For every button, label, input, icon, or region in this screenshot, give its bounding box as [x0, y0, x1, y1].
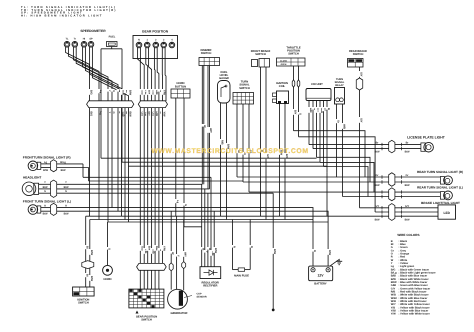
svg-text:Y/W: Y/W: [163, 90, 166, 95]
wire run throttle1: [294, 131, 366, 177]
lower gear wire labels: [139, 245, 166, 254]
svg-text:OPEN: OPEN: [281, 63, 287, 66]
svg-text:RELAY: RELAY: [335, 84, 344, 87]
svg-text:B/W: B/W: [129, 112, 132, 118]
svg-text:O: O: [112, 112, 115, 114]
svg-text:B/W: B/W: [375, 184, 381, 187]
turn signal relay: [335, 78, 345, 104]
svg-text:G: G: [108, 248, 111, 250]
svg-text:O: O: [65, 205, 67, 208]
svg-text:SWITCH: SWITCH: [201, 52, 212, 55]
svg-text:FUEL: FUEL: [109, 35, 116, 38]
svg-text:G/Y: G/Y: [360, 118, 363, 123]
svg-text:B: B: [327, 108, 330, 110]
svg-text:BUTTON: BUTTON: [175, 85, 186, 88]
CDI unit wires: [308, 101, 331, 173]
turn signal switch wires: [236, 104, 253, 192]
watermark: [151, 148, 308, 155]
wire run cdi4: [320, 162, 374, 192]
svg-text:HI: HIGH BEAM INDICATOR LIGHT: HI: HIGH BEAM INDICATOR LIGHT: [21, 15, 103, 18]
svg-text:Y/W: Y/W: [163, 112, 166, 117]
license plate light: [309, 136, 446, 154]
wire elbow sigR-a: [83, 176, 211, 178]
ignition coil wires: [278, 104, 288, 220]
gear position switch: [129, 264, 166, 322]
svg-text:B/G: B/G: [90, 90, 93, 95]
svg-text:Y/W: Y/W: [391, 313, 396, 316]
wire bus band1: [101, 157, 317, 159]
wire bus line B: [90, 219, 313, 221]
svg-text:Lg: Lg: [176, 200, 179, 204]
svg-text:G: G: [299, 113, 302, 115]
svg-text:W/B: W/B: [343, 124, 346, 129]
wire elbow sigR-b: [89, 180, 243, 182]
svg-text:B/W: B/W: [405, 184, 411, 187]
ignition switch: [73, 287, 95, 305]
wire bus band3: [129, 165, 328, 167]
speedometer indicator lamps TL Tr HI SP: [64, 29, 106, 47]
svg-text:R/W: R/W: [328, 250, 331, 256]
throttle position switch: [277, 46, 306, 66]
svg-text:CDI UNIT: CDI UNIT: [311, 83, 323, 86]
svg-text:G/Y: G/Y: [405, 205, 410, 208]
svg-text:Lg: Lg: [44, 161, 48, 164]
svg-text:Br: Br: [406, 142, 409, 145]
fuel sender wires: [101, 47, 122, 102]
front turn signal light L: [23, 200, 328, 267]
generator: [168, 289, 188, 315]
svg-text:B/W: B/W: [375, 150, 381, 153]
svg-text:Gr: Gr: [376, 174, 379, 177]
svg-text:Y: Y: [177, 255, 180, 257]
svg-text:: Yellow with White tracer: : Yellow with White tracer: [399, 313, 430, 316]
svg-text:SWITCH: SWITCH: [141, 318, 152, 321]
svg-text:BATTERY: BATTERY: [314, 283, 327, 286]
gear position switch stubs: [140, 271, 159, 290]
fuel gauge sender: [107, 35, 118, 46]
svg-text:CLOSE: CLOSE: [280, 59, 288, 62]
svg-text:R: R: [250, 246, 253, 248]
svg-text:COIL: COIL: [279, 85, 286, 88]
svg-text:SENSOR: SENSOR: [197, 295, 207, 298]
rear turn signal light L: [249, 185, 463, 200]
svg-text:FRONT TURN SIGNAL LIGHT (L): FRONT TURN SIGNAL LIGHT (L): [23, 200, 71, 204]
CDI unit: [306, 83, 331, 100]
svg-text:RECTIFIER: RECTIFIER: [203, 285, 217, 288]
fuel level gauge: [218, 71, 231, 103]
svg-text:Bl: Bl: [86, 246, 89, 249]
dimmer switch wires: [202, 66, 212, 189]
wire bus line A: [86, 215, 438, 217]
svg-text:G: G: [184, 204, 187, 206]
wire bus band2: [122, 161, 320, 163]
throttle position switch wires: [292, 66, 302, 137]
wire run cdi6: [326, 173, 328, 217]
battery feed wires: [312, 249, 332, 256]
svg-text:SWITCH: SWITCH: [353, 53, 364, 56]
wire run cdi5: [324, 167, 369, 197]
battery ground: [330, 259, 342, 265]
gear position harness wires: [138, 48, 166, 101]
svg-text:B/W: B/W: [90, 276, 93, 282]
svg-text:GAUGE: GAUGE: [219, 77, 229, 80]
rear brake switch: [348, 50, 368, 67]
svg-text:B/W: B/W: [375, 218, 381, 221]
svg-text:B/W: B/W: [43, 169, 49, 172]
svg-text:B/W: B/W: [214, 248, 217, 254]
svg-text:FRONTTURN SIGNAL LIGHT (R): FRONTTURN SIGNAL LIGHT (R): [23, 156, 71, 160]
regulator rectifier wires: [200, 177, 217, 266]
svg-text:HI: HI: [83, 38, 86, 41]
fuel level gauge wires: [219, 103, 230, 220]
svg-text:R/B: R/B: [221, 140, 224, 145]
svg-text:B/W: B/W: [405, 218, 411, 221]
svg-text:W/Y: W/Y: [209, 128, 212, 133]
svg-text:B/W: B/W: [129, 90, 132, 96]
svg-text:GENERATOR: GENERATOR: [171, 312, 188, 315]
svg-text:Lg: Lg: [99, 112, 102, 116]
svg-text:B/W: B/W: [61, 169, 67, 172]
ground bus wire: [272, 193, 277, 311]
horn: [103, 222, 113, 281]
wire colors legend: [391, 233, 436, 316]
svg-text:MAIN FUSE: MAIN FUSE: [234, 274, 249, 277]
headlight: [22, 175, 273, 197]
gear harness vertical wires: [140, 108, 162, 263]
brake tail light: [360, 201, 460, 221]
svg-text:Tr: Tr: [74, 38, 76, 41]
rear brake switch wires: [356, 67, 363, 208]
svg-text:SWITCH: SWITCH: [239, 87, 250, 90]
svg-text:B/Lg: B/Lg: [60, 161, 66, 164]
svg-text:W/Y: W/Y: [184, 252, 187, 257]
svg-text:LICENSE PLATE LIGHT: LICENSE PLATE LIGHT: [407, 136, 446, 140]
svg-text:12V: 12V: [317, 273, 324, 277]
speedometer bundle vertical wires: [90, 108, 129, 222]
svg-text:SWITCH: SWITCH: [255, 53, 266, 56]
svg-text:HORN: HORN: [104, 278, 112, 281]
svg-text:Gr: Gr: [406, 174, 409, 177]
front brake switch: [251, 50, 271, 67]
svg-text:WIRE COLORS: WIRE COLORS: [397, 233, 419, 237]
svg-text:B/Y: B/Y: [294, 110, 297, 115]
svg-text:N: N: [138, 38, 140, 41]
svg-text:G/Y: G/Y: [360, 72, 363, 77]
regulator rectifier: [200, 267, 221, 288]
gear position indicator lamps: [133, 30, 178, 59]
svg-text:G/Y: G/Y: [375, 205, 380, 208]
svg-text:SWITCH: SWITCH: [288, 53, 299, 56]
svg-text:REAR TURN SIGNAL LIGHT (R): REAR TURN SIGNAL LIGHT (R): [417, 170, 463, 174]
wire run cdi3: [317, 157, 371, 182]
svg-text:Lg: Lg: [99, 90, 102, 94]
svg-text:B/W: B/W: [405, 150, 411, 153]
svg-text:B/W: B/W: [43, 186, 49, 189]
main fuse: [231, 220, 253, 278]
wire labels at harness connectors: [88, 89, 166, 117]
ignition coil: [273, 82, 289, 104]
svg-text:B/W: B/W: [64, 186, 70, 189]
front brake switch wires: [259, 67, 269, 220]
svg-text:Bl: Bl: [86, 274, 89, 277]
svg-text:G: G: [44, 190, 46, 193]
speedometer harness connector: [87, 101, 134, 108]
svg-text:B/W: B/W: [43, 212, 49, 215]
svg-text:R: R: [313, 250, 316, 252]
front turn signal light R: [23, 156, 89, 181]
CKP sensor label: [184, 292, 207, 298]
legend notes: [21, 6, 117, 18]
svg-text:B/W: B/W: [90, 250, 93, 256]
svg-text:B/G: B/G: [90, 112, 93, 117]
svg-text:B/W: B/W: [273, 249, 276, 255]
svg-text:SWITCH: SWITCH: [78, 302, 89, 305]
svg-text:R: R: [233, 246, 236, 248]
svg-text:Y: Y: [205, 251, 208, 253]
dimmer switch: [199, 49, 220, 66]
svg-text:HEADLIGHT: HEADLIGHT: [23, 175, 41, 179]
svg-text:BRAKE LIGHT/TAIL LIGHT: BRAKE LIGHT/TAIL LIGHT: [421, 201, 460, 205]
rear turn signal light R: [237, 170, 463, 187]
svg-text:REAR TURN SIGNAL LIGHT (L): REAR TURN SIGNAL LIGHT (L): [417, 185, 463, 189]
turn signal relay wires: [335, 104, 346, 197]
svg-text:WWW.MASTERCIRCUITS.BLOGSPOT.CO: WWW.MASTERCIRCUITS.BLOGSPOT.COM: [151, 148, 308, 155]
svg-text:O: O: [112, 90, 115, 92]
svg-text:O: O: [44, 205, 46, 208]
svg-text:Br: Br: [376, 142, 379, 145]
svg-text:LED: LED: [444, 211, 451, 215]
battery: [309, 266, 333, 286]
generator wires: [169, 211, 187, 290]
svg-text:SPEEDOMETER: SPEEDOMETER: [80, 29, 106, 33]
turn signal switch: [233, 81, 254, 104]
svg-text:SP: SP: [89, 38, 93, 41]
ignition switch wires: [82, 216, 94, 287]
svg-text:B/W: B/W: [64, 212, 70, 215]
wire bus staple: [184, 226, 202, 228]
svg-text:Gr: Gr: [337, 120, 340, 123]
horn button switch: [171, 82, 190, 98]
svg-text:GEAR POSITION: GEAR POSITION: [142, 30, 169, 34]
wire bus line C: [108, 221, 329, 223]
horn button wires: [174, 98, 187, 227]
speedometer harness wires: [66, 47, 129, 101]
wire run throttle2: [299, 137, 376, 212]
gear position harness connector: [138, 101, 167, 108]
svg-text:Y/W: Y/W: [163, 246, 166, 251]
svg-text:G: G: [65, 190, 67, 193]
